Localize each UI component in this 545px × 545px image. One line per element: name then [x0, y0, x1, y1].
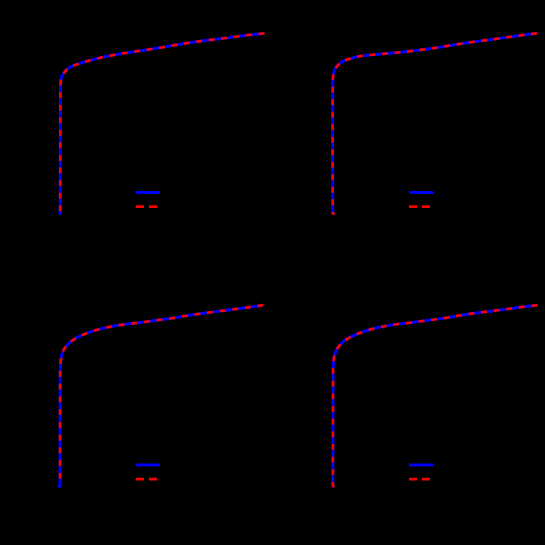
legend red sample BL: [136, 478, 157, 481]
blue solid curve BR: [333, 305, 537, 487]
red dashed curve BL: [60, 305, 263, 486]
top-right subplot: [333, 33, 537, 214]
legend blue sample TL: [136, 191, 160, 194]
legend blue sample TR: [409, 191, 433, 194]
blue solid curve TR: [333, 33, 537, 214]
bottom-right subplot: [333, 305, 537, 487]
red dashed curve TR: [333, 33, 537, 214]
legend red sample TR: [409, 205, 430, 208]
legend blue sample BR: [409, 463, 433, 466]
legend red sample BR: [409, 478, 430, 481]
legend blue sample BL: [136, 463, 160, 466]
bottom-left subplot: [58, 305, 264, 487]
blue solid curve TL: [59, 33, 265, 214]
red dashed curve BR: [333, 305, 537, 487]
blue solid curve BL: [58, 305, 264, 487]
red dashed curve TL: [59, 33, 265, 214]
legend red sample TL: [136, 205, 157, 208]
top-left subplot: [59, 33, 265, 214]
